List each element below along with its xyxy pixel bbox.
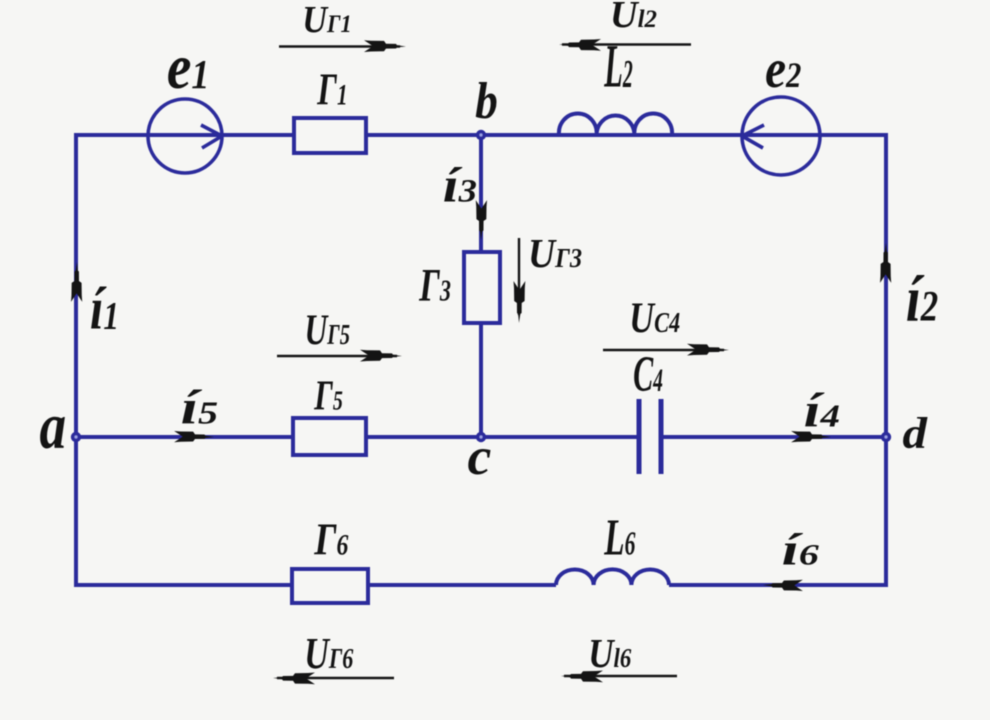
wire b to c vertical	[479, 135, 483, 437]
wire right	[884, 133, 888, 587]
arrow U_L2	[559, 39, 691, 51]
svg-text:UΓ1: UΓ1	[302, 0, 351, 40]
svg-text:í5: í5	[181, 381, 218, 435]
svg-text:Γ6: Γ6	[314, 514, 349, 565]
arrow i3	[476, 200, 487, 240]
arrow U_r6	[273, 673, 394, 685]
svg-text:L6: L6	[604, 509, 637, 566]
svg-text:UΓ5: UΓ5	[305, 306, 350, 354]
arrow U_r5	[277, 350, 402, 362]
capacitor C4	[639, 399, 661, 474]
source e1	[148, 99, 222, 173]
resistor r5	[293, 418, 366, 455]
svg-text:í2: í2	[906, 262, 938, 336]
node c	[476, 432, 486, 442]
inductor L6	[556, 569, 669, 585]
svg-text:UC4: UC4	[629, 294, 680, 342]
svg-text:í4: í4	[804, 383, 840, 437]
arrow U_L6	[561, 671, 677, 683]
wire middle a to d	[76, 435, 886, 439]
svg-text:e1: e1	[167, 31, 209, 102]
svg-text:c: c	[468, 426, 492, 486]
arrow i6	[763, 580, 803, 591]
wire left	[74, 133, 78, 587]
source e2	[742, 97, 820, 175]
resistor r1	[294, 118, 366, 153]
wire top	[76, 133, 886, 137]
node d	[881, 432, 891, 442]
svg-text:a: a	[40, 390, 67, 463]
arrow U_r3	[514, 238, 526, 323]
svg-text:í1: í1	[90, 274, 119, 341]
arrow i2	[880, 243, 891, 283]
arrow i5	[174, 431, 214, 442]
arrow U_r1	[279, 40, 406, 52]
arrow i1	[71, 262, 82, 302]
wire bottom	[76, 583, 886, 587]
svg-text:d: d	[903, 409, 929, 459]
arrow i4	[791, 431, 831, 442]
svg-text:Γ3: Γ3	[418, 258, 450, 311]
svg-text:e2: e2	[765, 39, 801, 100]
node b	[476, 130, 486, 140]
resistor r3	[464, 252, 500, 323]
svg-text:Γ1: Γ1	[316, 64, 347, 115]
svg-text:í6: í6	[782, 524, 820, 575]
svg-text:Ul2: Ul2	[610, 0, 657, 36]
svg-text:b: b	[475, 71, 498, 130]
resistor r6	[292, 569, 368, 603]
inductor L2	[559, 113, 672, 135]
svg-text:C4: C4	[633, 347, 663, 403]
svg-text:UΓ6: UΓ6	[304, 629, 353, 678]
node a	[71, 432, 81, 442]
svg-text:Ul6: Ul6	[588, 631, 632, 676]
svg-text:Γ5: Γ5	[313, 372, 342, 419]
arrow U_C4	[603, 344, 729, 356]
svg-text:UΓ3: UΓ3	[528, 230, 582, 276]
svg-text:í3: í3	[443, 157, 477, 212]
